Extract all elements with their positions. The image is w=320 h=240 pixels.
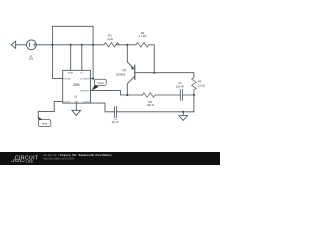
wire threshold from 555 with jog: [90, 91, 142, 95]
transistor Q2 collector diagonal and drop: [127, 76, 135, 95]
wire vcc drop: [81, 45, 83, 71]
flag Vout box: [38, 120, 50, 127]
ground stub right: [182, 112, 184, 116]
resistor R1 zigzag: [104, 43, 119, 48]
node vcc/rail junction: [81, 44, 83, 46]
logo squiggle: [11, 160, 25, 162]
svg-text:Vout: Vout: [42, 122, 48, 126]
svg-text:100 Ω: 100 Ω: [147, 103, 154, 107]
wire emitter drop: [126, 45, 128, 62]
node ground rail junction: [182, 111, 184, 113]
flag Vout pointer: [38, 117, 43, 123]
wire R5 to C1: [155, 94, 180, 96]
wire reset drop: [70, 45, 72, 71]
svg-text:6 V: 6 V: [29, 57, 33, 61]
wire C2 left to control pin: [90, 103, 114, 112]
ground symbol right: [179, 116, 188, 121]
wire loop right leg to discharge: [92, 26, 94, 78]
svg-text:2N3906: 2N3906: [116, 73, 126, 77]
wire V1 to rail: [36, 44, 104, 46]
node reset/rail junction: [70, 44, 72, 46]
wire Q2 base to R3 top: [135, 73, 194, 78]
footer bar: [0, 152, 220, 165]
capacitor C2 plates: [114, 107, 116, 117]
resistor R5 zigzag: [142, 93, 155, 98]
svg-text:R3: R3: [198, 80, 202, 84]
node R1-R2/emitter junction: [126, 44, 128, 46]
ground symbol under 555: [72, 110, 81, 115]
node discharge-loop/rail junction: [92, 44, 94, 46]
555 pin labels: [63, 73, 90, 104]
node collector/threshold junction: [126, 94, 128, 96]
resistor R3 zigzag vertical: [192, 78, 197, 95]
wire output from 555: [38, 101, 63, 117]
node trigger/rail junction: [52, 44, 54, 46]
node C1/R3 junction: [193, 94, 195, 96]
voltage source V1: [27, 40, 37, 50]
flag Vcap box: [94, 79, 106, 85]
wire R2 right lead and drop to base: [149, 45, 154, 73]
texts: [29, 31, 205, 126]
input port arrow: [11, 41, 16, 48]
wire loop top: [53, 25, 94, 27]
wire top rail R1 right to R2: [116, 44, 136, 46]
bottom rail right: [116, 111, 193, 113]
svg-text:2.7 kΩ: 2.7 kΩ: [139, 34, 147, 38]
flag Vcap pointer: [92, 85, 99, 91]
svg-text:http://circuitlab.com/c/2269: http://circuitlab.com/c/2269: [43, 157, 74, 161]
svg-text:THRESHOLD: THRESHOLD: [80, 90, 91, 92]
svg-text:CONTROL: CONTROL: [82, 101, 90, 103]
node discharge stub junction: [92, 78, 94, 80]
svg-text:10 nF: 10 nF: [112, 120, 119, 124]
transistor Q2 bar: [134, 65, 136, 79]
svg-text:LAB: LAB: [26, 160, 34, 164]
capacitor C1 plates: [180, 90, 182, 101]
transistor Q2 arrow: [131, 67, 134, 70]
resistor R2 zigzag: [136, 43, 149, 48]
svg-text:OUTPUT: OUTPUT: [63, 101, 70, 103]
svg-text:U1: U1: [74, 94, 78, 98]
ground pin stub of 555: [75, 103, 77, 110]
svg-text:555: 555: [73, 83, 79, 87]
wire port to V1: [16, 44, 27, 46]
svg-text:Q2: Q2: [123, 68, 127, 72]
wire discharge stub: [90, 78, 93, 80]
transistor Q2 emitter diagonal: [127, 62, 135, 69]
svg-text:12 kΩ: 12 kΩ: [198, 83, 205, 87]
svg-text:cc-by-nc / Figure 5b: Sawtooth: cc-by-nc / Figure 5b: Sawtooth Oscillato…: [43, 153, 112, 157]
node base/R2 junction: [153, 72, 155, 74]
svg-text:100 nF: 100 nF: [176, 85, 185, 89]
svg-text:TRIGGER: TRIGGER: [63, 78, 71, 80]
IC U1 555 timer box: [63, 70, 91, 103]
wire C1 right to junction and down leg: [182, 95, 194, 112]
svg-text:2 kΩ: 2 kΩ: [107, 37, 113, 41]
svg-text:Vcap: Vcap: [97, 81, 104, 85]
svg-text:RESET: RESET: [68, 73, 73, 75]
wire trigger loop left leg: [53, 26, 63, 78]
